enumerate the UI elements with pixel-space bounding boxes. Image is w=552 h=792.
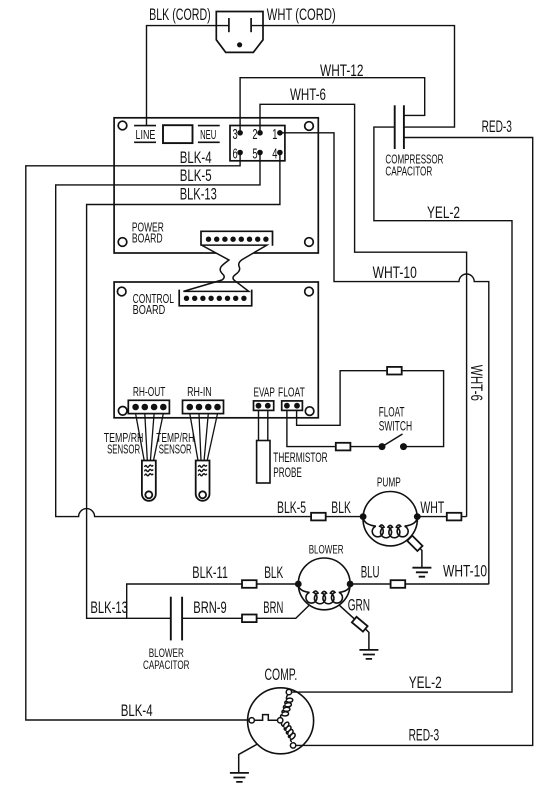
wire float loop bbox=[287, 410, 379, 446]
wire BLK-5 bbox=[56, 153, 363, 517]
temp/rh sensor bbox=[190, 414, 198, 461]
control board bbox=[114, 282, 318, 418]
svg-text:BRN-9: BRN-9 bbox=[193, 598, 226, 617]
svg-text:RH-IN: RH-IN bbox=[187, 384, 212, 399]
svg-text:BLU: BLU bbox=[361, 563, 380, 582]
ground compressor bbox=[230, 773, 249, 782]
svg-text:EVAP: EVAP bbox=[254, 384, 275, 399]
svg-text:4: 4 bbox=[272, 147, 277, 163]
wire BLK cord bbox=[147, 26, 229, 125]
svg-text:RED-3: RED-3 bbox=[482, 117, 512, 136]
ground pump bbox=[412, 568, 431, 577]
wire YEL-2 bbox=[292, 127, 512, 692]
wire WHT-12 bbox=[240, 78, 425, 133]
svg-text:WHT: WHT bbox=[420, 498, 444, 517]
wire WHT-6 bbox=[260, 104, 467, 516]
thermistor probe bbox=[258, 410, 260, 440]
connector ribbon control board bbox=[179, 290, 252, 306]
svg-text:BLK: BLK bbox=[331, 498, 351, 517]
wire BLK-13 bbox=[87, 153, 280, 619]
svg-text:BLK-4: BLK-4 bbox=[121, 701, 153, 720]
svg-text:WHT-10: WHT-10 bbox=[373, 263, 417, 282]
svg-text:BOARD: BOARD bbox=[133, 302, 166, 317]
svg-text:WHT-12: WHT-12 bbox=[320, 61, 364, 80]
wire BLK-4 bbox=[26, 153, 249, 721]
svg-text:BOARD: BOARD bbox=[132, 230, 163, 245]
blower capacitor bbox=[170, 597, 172, 641]
float switch bbox=[379, 443, 386, 450]
wire pin1 / WHT-10 bbox=[280, 133, 489, 584]
wire pump WHT bbox=[417, 516, 466, 518]
blower motor bbox=[298, 558, 350, 610]
svg-text:BLK-5: BLK-5 bbox=[277, 498, 306, 517]
svg-text:BLK-5: BLK-5 bbox=[180, 166, 212, 185]
svg-text:BLK: BLK bbox=[264, 563, 283, 582]
svg-text:SENSOR: SENSOR bbox=[159, 441, 192, 456]
pump ground lead bbox=[409, 538, 422, 568]
capacitor compressor-cap bbox=[394, 105, 396, 149]
blower ground lead GRN bbox=[339, 605, 369, 650]
NEU terminal bbox=[198, 125, 220, 127]
svg-text:CAPACITOR: CAPACITOR bbox=[385, 164, 432, 179]
wire BRN-9 bbox=[182, 605, 309, 618]
power board bbox=[114, 118, 318, 253]
svg-text:6: 6 bbox=[233, 147, 238, 163]
svg-text:RH-OUT: RH-OUT bbox=[133, 384, 166, 399]
svg-text:PROBE: PROBE bbox=[273, 464, 302, 480]
svg-text:5: 5 bbox=[252, 147, 257, 163]
svg-text:WHT (CORD): WHT (CORD) bbox=[267, 5, 336, 24]
svg-text:WHT-6: WHT-6 bbox=[290, 85, 326, 104]
connector RH-IN bbox=[183, 400, 224, 413]
svg-text:BLK-4: BLK-4 bbox=[180, 148, 212, 167]
svg-text:NEU: NEU bbox=[200, 127, 216, 142]
wire BLU bbox=[350, 583, 489, 585]
pump motor bbox=[363, 492, 417, 546]
svg-text:BLK-11: BLK-11 bbox=[192, 563, 228, 582]
ground blower bbox=[359, 650, 378, 659]
svg-text:SENSOR: SENSOR bbox=[107, 441, 140, 456]
compressor motor bbox=[248, 688, 314, 754]
compressor windings bbox=[281, 695, 293, 718]
svg-text:THERMISTOR: THERMISTOR bbox=[273, 449, 327, 465]
svg-text:YEL-2: YEL-2 bbox=[427, 203, 460, 222]
LINE terminal bbox=[134, 125, 156, 127]
svg-text:GRN: GRN bbox=[348, 596, 370, 615]
svg-text:PUMP: PUMP bbox=[377, 476, 401, 490]
svg-text:BRN: BRN bbox=[263, 598, 283, 617]
connector ribbon power board bbox=[201, 231, 273, 246]
connector RH-OUT bbox=[128, 400, 169, 413]
power plug bbox=[216, 12, 263, 53]
connector FLOAT bbox=[282, 401, 303, 411]
compressor ground lead bbox=[239, 744, 258, 773]
svg-text:BLK-13: BLK-13 bbox=[180, 185, 217, 204]
svg-text:LINE: LINE bbox=[136, 127, 156, 142]
wire BLK-11 bbox=[127, 584, 299, 618]
svg-text:2: 2 bbox=[252, 127, 257, 143]
svg-text:BLK-13: BLK-13 bbox=[90, 598, 128, 617]
svg-text:WHT-6: WHT-6 bbox=[467, 365, 486, 401]
svg-text:WHT-10: WHT-10 bbox=[443, 562, 487, 581]
connector EVAP bbox=[254, 401, 274, 411]
svg-text:3: 3 bbox=[233, 127, 238, 143]
wire WHT cord bbox=[251, 26, 454, 128]
svg-text:CAPACITOR: CAPACITOR bbox=[143, 658, 190, 672]
svg-text:COMP.: COMP. bbox=[265, 665, 298, 684]
svg-text:BLOWER: BLOWER bbox=[309, 544, 344, 556]
svg-text:RED-3: RED-3 bbox=[409, 726, 440, 745]
svg-text:YEL-2: YEL-2 bbox=[409, 673, 442, 692]
svg-text:FLOAT: FLOAT bbox=[278, 384, 305, 399]
overload protector bbox=[254, 715, 277, 721]
svg-text:SWITCH: SWITCH bbox=[379, 418, 412, 434]
svg-text:BLK (CORD): BLK (CORD) bbox=[149, 5, 211, 24]
connector J1 6-pin bbox=[230, 126, 285, 161]
svg-text:1: 1 bbox=[272, 127, 277, 143]
wire RED-3 bbox=[296, 138, 533, 746]
fuse bbox=[163, 125, 193, 143]
temp/rh sensor bbox=[136, 414, 145, 461]
ribbon cable bbox=[183, 245, 267, 291]
